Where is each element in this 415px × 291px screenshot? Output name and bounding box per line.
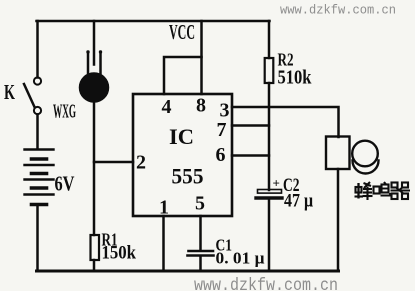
char qi	[392, 183, 398, 188]
capacitor C2 positive plate	[258, 190, 282, 194]
resistor R1 body	[91, 235, 100, 260]
wire R2 top lead	[268, 21, 271, 58]
wire top rail VCC	[37, 20, 270, 23]
battery B1 6V plates	[25, 150, 54, 205]
op IC 555 body	[133, 94, 232, 216]
wire sensor top lead from top rail	[93, 21, 96, 65]
capacitor C1 bottom plate	[188, 254, 214, 257]
buzzer diaphragm circle	[352, 141, 378, 167]
svg-text:4: 4	[162, 96, 172, 118]
svg-text:K: K	[4, 80, 15, 104]
wire pin6 line	[232, 154, 269, 157]
wire pin7 line	[232, 124, 269, 127]
buzzer lower arc	[353, 161, 379, 174]
wire R1 to bottom rail	[93, 260, 96, 271]
svg-text:47 μ: 47 μ	[284, 191, 313, 212]
resistor R2 body	[265, 58, 274, 83]
switch K lever	[24, 84, 35, 107]
svg-text:7: 7	[217, 119, 227, 141]
wire buzzer to bottom rail	[337, 169, 340, 271]
svg-text:1: 1	[159, 197, 169, 219]
switch K bottom contact	[34, 107, 41, 114]
sensor WXG left prong	[87, 52, 90, 74]
capacitor C1 top plate	[189, 250, 214, 253]
wire pin5 lead	[199, 216, 202, 250]
svg-text:0. 01 μ: 0. 01 μ	[216, 249, 265, 268]
wire pin2 stub to IC	[94, 161, 133, 164]
char ming	[374, 187, 380, 194]
wire pin4 lead	[164, 57, 202, 94]
sensor WXG right prong	[99, 52, 102, 74]
switch K top contact	[34, 77, 41, 84]
svg-text:VCC: VCC	[169, 20, 195, 44]
svg-text:6: 6	[216, 144, 226, 166]
wire sensor to R1	[93, 100, 96, 235]
wire C2 to bottom rail	[268, 200, 271, 272]
svg-text:5: 5	[195, 193, 205, 215]
sensor WXG ball	[80, 74, 108, 102]
svg-text:2: 2	[136, 152, 146, 174]
wire R2 bottom lead down to C2	[268, 83, 271, 190]
wire pin8 lead from top rail	[200, 21, 203, 94]
wire pin1 lead to bottom rail	[162, 216, 165, 271]
wire pin3 output line	[232, 107, 339, 137]
wire left column from top rail to switch	[36, 21, 39, 78]
svg-text:www.dzkfw.com.cn: www.dzkfw.com.cn	[280, 3, 396, 18]
svg-text:150k: 150k	[102, 243, 137, 264]
svg-text:6V: 6V	[55, 172, 75, 196]
capacitor C2 negative plate	[256, 196, 282, 199]
wire bottom rail (ground return)	[37, 270, 339, 273]
wire battery to bottom rail	[36, 206, 39, 271]
svg-text:510k: 510k	[278, 67, 313, 89]
sensor WXG right prong tip	[99, 50, 102, 53]
wire C1 to bottom rail	[199, 257, 202, 272]
svg-text:8: 8	[196, 95, 206, 117]
wire switch to battery	[36, 115, 39, 150]
svg-text:www.dzkfw.com.cn: www.dzkfw.com.cn	[194, 276, 338, 291]
svg-text:555: 555	[172, 164, 204, 189]
svg-text:IC: IC	[169, 124, 194, 149]
svg-text:+: +	[273, 176, 280, 191]
char feng	[357, 183, 359, 199]
sensor WXG left prong tip	[86, 50, 89, 53]
buzzer coil box	[326, 137, 350, 170]
svg-text:WXG: WXG	[53, 101, 76, 123]
label buzzer Chinese 蜂鸣器	[355, 182, 411, 200]
